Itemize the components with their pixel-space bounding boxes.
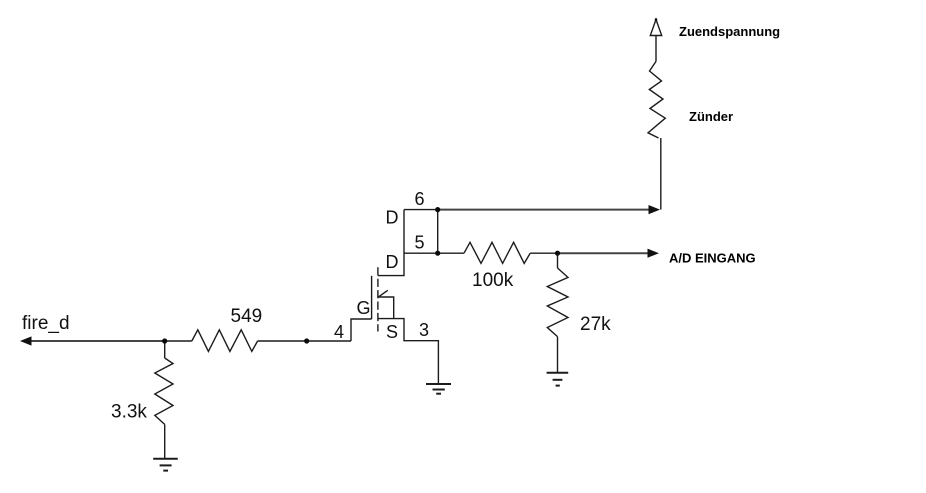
svg-text:fire_d: fire_d bbox=[22, 313, 70, 334]
svg-text:549: 549 bbox=[231, 306, 263, 327]
svg-text:A/D EINGANG: A/D EINGANG bbox=[669, 251, 756, 266]
svg-text:D: D bbox=[386, 252, 399, 272]
svg-text:Zünder: Zünder bbox=[689, 109, 733, 124]
svg-text:27k: 27k bbox=[580, 314, 611, 335]
svg-text:S: S bbox=[386, 322, 398, 342]
svg-text:4: 4 bbox=[334, 322, 344, 342]
svg-text:G: G bbox=[357, 298, 371, 318]
svg-text:Zuendspannung: Zuendspannung bbox=[679, 24, 780, 39]
svg-text:6: 6 bbox=[415, 189, 425, 209]
svg-text:3.3k: 3.3k bbox=[111, 402, 147, 423]
svg-text:5: 5 bbox=[415, 233, 425, 253]
svg-text:100k: 100k bbox=[472, 270, 514, 291]
svg-text:3: 3 bbox=[419, 320, 429, 340]
svg-text:D: D bbox=[386, 208, 399, 228]
